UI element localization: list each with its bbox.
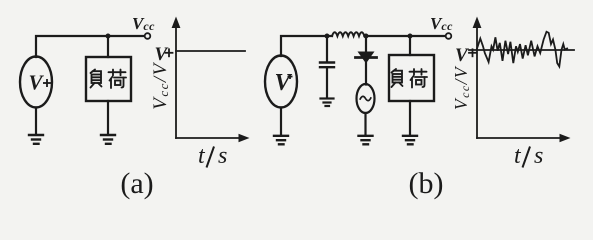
svg-text:(b): (b): [409, 167, 444, 200]
svg-text:s: s: [534, 143, 543, 169]
svg-text:V: V: [29, 71, 45, 95]
svg-text:V: V: [275, 70, 293, 96]
svg-text:s: s: [218, 143, 227, 169]
svg-text:(a): (a): [120, 167, 153, 200]
svg-text:V: V: [455, 45, 469, 66]
svg-text:V: V: [155, 44, 169, 65]
